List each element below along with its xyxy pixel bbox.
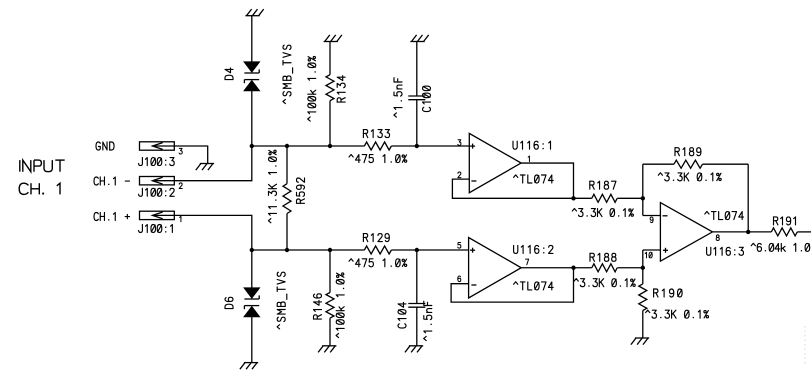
label R188 xyxy=(590,253,616,261)
wire (faint page edge artifact) xyxy=(804,326,806,366)
value R187 xyxy=(572,209,633,217)
capacitor C104 xyxy=(408,304,425,308)
label GND xyxy=(96,142,114,150)
ground (below R190) xyxy=(631,338,649,345)
capacitor C100 xyxy=(408,96,425,100)
wire J100:2 to node A xyxy=(174,146,252,181)
value R190 xyxy=(646,310,709,318)
wire D6 to ground xyxy=(251,317,253,363)
label J100:1 xyxy=(139,225,173,233)
op-amp U116:2 xyxy=(469,238,522,299)
resistor R187 xyxy=(574,194,643,202)
label D4 xyxy=(225,68,233,80)
value R134 xyxy=(308,56,316,121)
pin number 7 (U116:2) xyxy=(526,259,529,265)
op-amp U116:1 xyxy=(469,133,521,192)
wire R189 left vertical xyxy=(642,164,644,215)
node B junction dot (R592) xyxy=(285,248,289,252)
junction dot (R188/R190 node) xyxy=(641,266,645,270)
label R187 xyxy=(590,181,616,189)
wire node B to D6 xyxy=(251,250,253,288)
wire R129 to U116:2 pin 5 xyxy=(391,249,468,251)
node junction dot (C104) xyxy=(415,248,419,252)
wire ground to D4 xyxy=(251,16,253,62)
junction dot U116:1 output node xyxy=(571,196,575,200)
value R592 xyxy=(268,150,276,223)
plus sign U116:3 xyxy=(663,248,668,253)
label J100:2 xyxy=(139,188,175,196)
wire R592 top lead xyxy=(286,146,288,184)
wire ground to R134 xyxy=(329,42,331,75)
pin number 5 (U116:2) xyxy=(458,243,461,249)
label R134 xyxy=(337,76,345,102)
value C100 xyxy=(394,78,402,117)
label C104 xyxy=(398,303,406,329)
resistor R592 xyxy=(283,184,291,214)
connector J100:3 xyxy=(140,142,175,150)
diode D6 (SMB_TVS) xyxy=(244,288,259,317)
wire J100:1 to node B xyxy=(174,215,252,250)
value R129 xyxy=(349,259,407,267)
node A junction dot (D4) xyxy=(250,144,254,148)
pin number 3 (U116:1) xyxy=(458,140,461,146)
label R146 xyxy=(314,294,322,319)
resistor R188 xyxy=(574,264,643,272)
wire C100 to node A xyxy=(416,100,418,146)
connector J100:2 xyxy=(140,177,175,185)
wire U116:2 output xyxy=(521,267,573,269)
pin number 2 (U116:1) xyxy=(458,172,461,178)
value R188 xyxy=(574,279,635,287)
wire node B to C104 xyxy=(416,250,418,304)
pin number 1 (U116:1) xyxy=(528,156,529,162)
wire U116:1 feedback xyxy=(452,179,573,198)
resistor R134 xyxy=(326,75,334,101)
value R146 xyxy=(336,273,344,338)
label R189 xyxy=(675,148,701,156)
label R592 xyxy=(297,178,305,203)
wire R133 to U116:1 pin 3 xyxy=(391,145,469,147)
resistor R191 xyxy=(748,228,811,236)
wire U116:3 output xyxy=(713,231,749,233)
resistor R129 xyxy=(364,246,391,254)
wire U116:3 pin 10 xyxy=(643,249,661,251)
wire rail B (CH.1+ net) xyxy=(252,249,365,251)
node B junction dot (R146) xyxy=(328,248,332,252)
ground (above R134) xyxy=(324,35,342,42)
wire D4 to node A xyxy=(251,91,253,146)
wire pin10 riser xyxy=(642,250,644,268)
ground (below C104) xyxy=(405,346,423,353)
op-amp U116:3 xyxy=(660,203,712,262)
node junction dot (C100) xyxy=(415,144,419,148)
label R191 xyxy=(774,217,796,225)
wire R592 bottom lead xyxy=(286,214,288,251)
value TL074 (U116:1) xyxy=(514,175,554,183)
wire J100:3 to ground xyxy=(174,146,207,164)
resistor R189 xyxy=(643,160,748,168)
wire U116:1 output xyxy=(521,163,573,198)
value SMB_TVS (D6) xyxy=(277,272,287,329)
ground (J100:3) xyxy=(196,164,214,171)
resistor R133 xyxy=(364,142,391,150)
ground (above C100) xyxy=(410,35,428,42)
label D6 xyxy=(225,297,233,308)
node A junction dot (R134) xyxy=(328,144,332,148)
value R133 xyxy=(349,155,407,163)
pin number 6 (U116:2) xyxy=(458,276,461,282)
wire R134 to node A xyxy=(329,101,331,146)
label U116:2 xyxy=(514,245,553,253)
connector J100:1 xyxy=(140,211,175,219)
minus sign U116:3 xyxy=(663,215,668,217)
value R191 xyxy=(751,243,810,251)
resistor R190 xyxy=(639,268,647,338)
ground (below R146) xyxy=(318,346,336,353)
label U116:3 xyxy=(707,247,744,255)
ground (above D4) xyxy=(245,9,263,16)
node A junction dot (R592) xyxy=(285,144,289,148)
minus sign U116:2 xyxy=(471,284,476,286)
value R189 xyxy=(658,173,721,181)
label U116:1 xyxy=(513,141,551,149)
value TL074 (U116:3) xyxy=(705,212,744,220)
junction dot U116:2 output node xyxy=(571,266,575,270)
value TL074 (U116:2) xyxy=(514,282,554,290)
label CH.1 + xyxy=(94,213,130,221)
pin number 9 (U116:3) xyxy=(650,217,653,223)
wire rail A (CH.1- net) xyxy=(252,145,365,147)
text INPUT xyxy=(20,160,65,172)
plus sign U116:1 xyxy=(470,144,475,149)
resistor R146 xyxy=(326,293,334,319)
wire U116:2 feedback xyxy=(451,268,573,302)
value SMB_TVS (D4) xyxy=(283,45,293,103)
value C104 xyxy=(424,301,432,340)
label CH.1 - xyxy=(94,177,129,185)
pin number 8 (U116:3) xyxy=(716,235,719,241)
text CH. 1 xyxy=(19,183,60,194)
wire R189 right vertical xyxy=(747,164,749,232)
wire C104 to ground xyxy=(416,307,418,346)
ground (below D6) xyxy=(240,363,258,370)
junction dot (R187/R189 node) xyxy=(641,196,645,200)
minus sign U116:1 xyxy=(471,180,476,182)
pin number 1 (J100:1) xyxy=(180,216,181,222)
plus sign U116:2 xyxy=(470,248,475,253)
wire R146 to ground xyxy=(329,318,331,346)
diode D4 (SMB_TVS) xyxy=(244,62,259,91)
label C100 xyxy=(423,86,431,112)
wire node B to R146 xyxy=(329,250,331,293)
pin number 2 (J100:2) xyxy=(179,183,182,189)
pin number 3 (J100:3) xyxy=(179,148,182,154)
label J100:3 xyxy=(139,158,175,166)
wire ground to C100 xyxy=(416,42,418,97)
pin number 10 (U116:3) xyxy=(645,252,652,258)
junction dot U116:3 output node xyxy=(746,230,750,234)
label R133 xyxy=(363,130,389,138)
label R190 xyxy=(654,289,683,297)
label R129 xyxy=(363,234,389,242)
node B junction dot (D6) xyxy=(250,248,254,252)
wire U116:3 pin 9 xyxy=(643,215,661,217)
